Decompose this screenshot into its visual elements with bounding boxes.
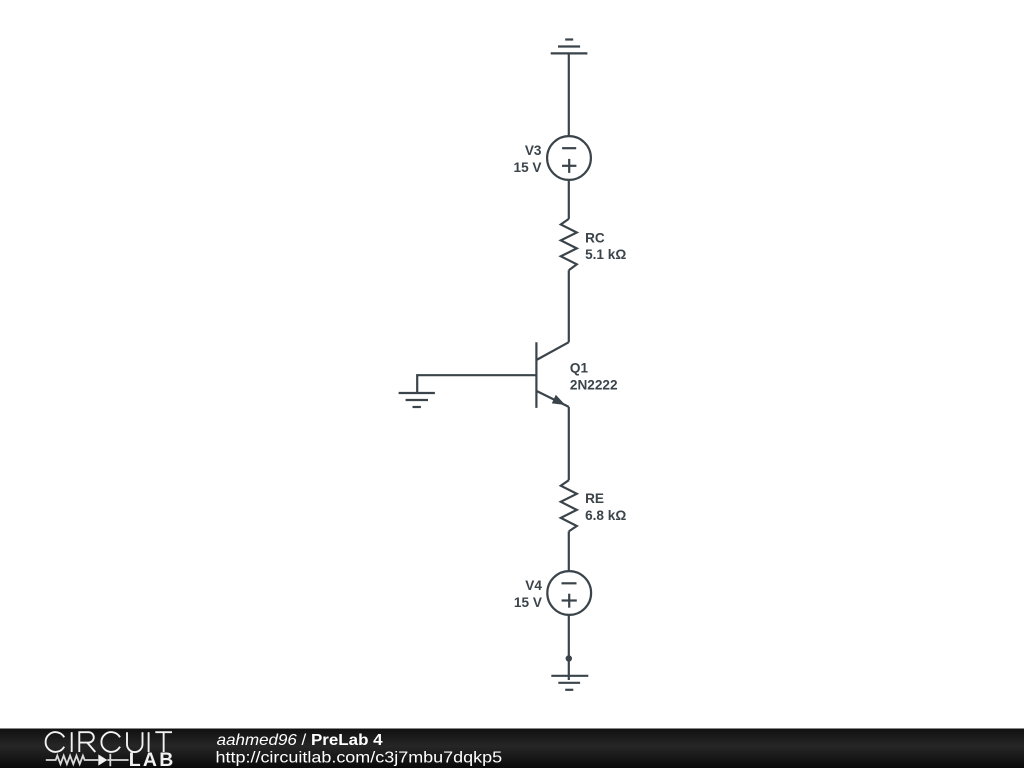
svg-text:2N2222: 2N2222: [570, 378, 618, 393]
svg-text:LAB: LAB: [129, 749, 176, 768]
svg-text:aahmed96 / PreLab 4: aahmed96 / PreLab 4: [217, 732, 383, 749]
svg-text:http://circuitlab.com/c3j7mbu7: http://circuitlab.com/c3j7mbu7dqkp5: [216, 749, 503, 766]
svg-text:RC: RC: [585, 230, 605, 245]
svg-text:Q1: Q1: [570, 361, 589, 376]
svg-text:15 V: 15 V: [514, 160, 542, 175]
svg-text:V3: V3: [525, 143, 542, 158]
svg-text:RE: RE: [585, 491, 604, 506]
svg-text:5.1 kΩ: 5.1 kΩ: [585, 247, 626, 262]
svg-text:15 V: 15 V: [514, 595, 542, 610]
svg-text:6.8 kΩ: 6.8 kΩ: [585, 508, 626, 523]
svg-text:V4: V4: [525, 578, 542, 593]
